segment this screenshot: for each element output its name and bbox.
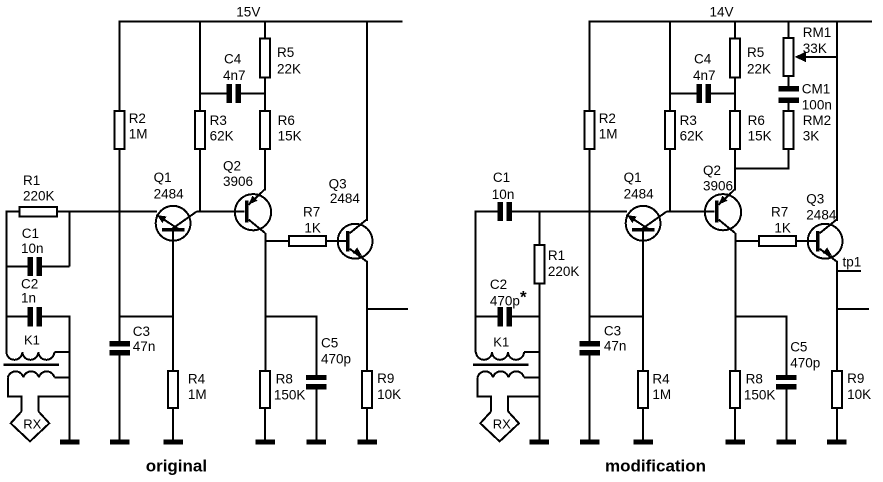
svg-text:C4: C4 [224,52,242,67]
svg-text:22K: 22K [277,61,301,76]
svg-text:C3: C3 [133,324,150,339]
svg-text:10K: 10K [377,387,401,402]
svg-text:47n: 47n [604,339,627,354]
wire K1 secondary right stub [54,376,69,378]
wire C4 left (original) [200,93,227,95]
svg-text:C5: C5 [321,335,338,350]
wire Q1 base down to R4 (modification) [642,232,644,371]
wire C1 right (original) [41,265,69,267]
resistor R6 (original) [260,111,270,149]
wire R2 to C3 (original) [119,149,121,341]
wire input left rail (modification) [475,211,477,353]
svg-text:3906: 3906 [703,178,733,193]
svg-text:22K: 22K [747,61,771,76]
svg-text:R8: R8 [746,371,763,386]
ground K1 (original) [60,440,80,445]
capacitor CM1 (modification) [778,86,798,92]
svg-text:R3: R3 [210,113,227,128]
wire RM2 to R6 node (modification) [735,149,789,169]
capacitor C4 (original) [227,84,233,103]
svg-text:1M: 1M [129,126,148,141]
transistor Q1 (original) [156,206,191,241]
wire R1 right drop (original) [69,211,71,267]
svg-text:R4: R4 [652,371,670,386]
svg-text:47n: 47n [133,339,156,354]
wire V+ to R3 (original) [199,21,201,112]
wire V+ to R2 (modification) [589,21,591,112]
svg-text:C2: C2 [490,277,507,292]
wire R5 to R6 (modification) [734,77,736,111]
svg-text:14V: 14V [710,5,734,20]
resistor R7 (modification) [759,236,796,246]
resistor R8 (modification) [730,371,740,408]
capacitor C2 (modification) [497,307,503,326]
svg-text:62K: 62K [210,128,234,143]
svg-text:C1: C1 [493,170,510,185]
resistor R1 (modification) [534,245,544,283]
svg-text:R5: R5 [747,45,764,60]
wire Q3 emitter down (original) [366,262,368,372]
capacitor C5 (modification) [776,375,796,380]
wire R5 to R6 (original) [264,77,266,111]
wire Q1 base down to R4 (original) [172,232,174,371]
svg-text:C1: C1 [22,226,39,241]
svg-text:R8: R8 [276,371,293,386]
svg-text:2484: 2484 [624,186,655,201]
svg-text:150K: 150K [274,388,306,403]
svg-text:470p: 470p [490,294,520,309]
resistor R6 (modification) [730,111,740,149]
power rail 14V (modification) [590,21,873,23]
svg-text:RM1: RM1 [803,25,832,40]
wire Q3 collector to V+ (original) [366,21,368,222]
svg-text:R7: R7 [303,204,320,219]
wire Q1 collector to Q2 base (modification) [667,211,715,213]
wire R9 to ground (modification) [836,408,838,441]
transistor Q3 (original) [338,224,373,259]
svg-text:470p: 470p [790,355,820,370]
wire R6 to Q2 emitter (original) [264,149,266,191]
svg-text:220K: 220K [23,189,55,204]
svg-text:10n: 10n [21,241,44,256]
wire output stub (modification) [837,308,869,310]
wire RM1 to CM1 (modification) [788,76,790,86]
svg-text:1M: 1M [652,387,671,402]
wire R6 to Q2 emitter (modification) [734,149,736,191]
resistor R7 (original) [289,236,326,246]
wire R9 to ground (original) [366,408,368,441]
svg-text:R2: R2 [129,111,146,126]
transformer K1 (modification) [476,352,524,360]
test point tp1 stub [837,270,861,272]
wire C2 right (modification) [511,316,539,318]
wire Q2 collector down (original) [264,233,266,371]
svg-text:15K: 15K [278,128,302,143]
resistor R4 (original) [168,371,178,408]
svg-text:2484: 2484 [330,191,361,206]
wire R7 to Q3 base (original) [326,240,346,242]
svg-text:220K: 220K [548,264,580,279]
wire antenna right connection [508,396,539,411]
wire K1 secondary left drop [478,377,492,411]
svg-text:*: * [520,288,527,307]
wire C2 left (modification) [476,316,499,318]
wire R1 top (modification) [538,211,540,246]
resistor R1 (original) [19,207,57,217]
svg-text:1M: 1M [599,126,618,141]
svg-text:R1: R1 [23,173,40,188]
capacitor C1 (modification) [497,202,503,221]
svg-text:1M: 1M [188,387,207,402]
svg-text:C4: C4 [694,52,712,67]
resistor R2 (modification) [585,111,595,149]
svg-text:15K: 15K [748,128,772,143]
resistor R3 (original) [195,111,205,149]
ground C5 (original) [307,440,327,445]
wire C5 top (modification) [785,315,787,374]
svg-text:CM1: CM1 [802,81,831,96]
wire K1 primary right stub [524,351,539,353]
svg-text:Q3: Q3 [806,192,824,207]
trimmer RM1 (modification) [784,38,794,76]
svg-text:15V: 15V [236,4,260,19]
wire K1 primary right stub [54,351,69,353]
wire C1 to Q1 base (modification) [511,211,627,213]
wire C4 right (original) [241,93,265,95]
wire C4 left (modification) [670,93,697,95]
wire Q2 collector to R7 (modification) [735,240,759,242]
svg-text:1n: 1n [21,290,36,305]
wire V+ to RM1 (modification) [788,21,790,38]
svg-text:Q1: Q1 [154,170,172,185]
ground R8 (original) [255,440,275,445]
wire V+ to R5 (original) [264,21,266,39]
svg-text:2484: 2484 [154,186,185,201]
resistor R5 (original) [260,39,270,78]
svg-text:R6: R6 [748,113,765,128]
wire C3 to ground (modification) [589,356,591,441]
wire R1 bottom (modification) [538,283,540,316]
wire R3 to base node (original) [199,149,201,213]
resistor R9 (modification) [832,371,842,408]
svg-text:R1: R1 [548,248,565,263]
wire R4 to ground (original) [172,408,174,441]
resistor R8 (original) [260,371,270,408]
wire C4 right (modification) [711,93,735,95]
wire V+ to R2 (original) [119,21,121,112]
wire Q1 node to C3 node (original) [120,316,174,318]
wire Q1 node to C3 node (modification) [590,316,644,318]
svg-text:R4: R4 [188,371,206,386]
svg-text:10K: 10K [847,387,871,402]
svg-text:470p: 470p [321,352,351,367]
wire Q2 collector down (modification) [734,233,736,371]
resistor R2 (original) [115,111,125,149]
K1 core [473,364,529,367]
capacitor C2 (original) [28,307,34,326]
wire Q2 collector to C5 (original) [265,315,316,317]
power rail 15V (original) [120,21,403,23]
svg-text:RM2: RM2 [803,113,832,128]
ground R9 (modification) [827,440,847,445]
svg-text:R7: R7 [771,204,788,219]
svg-text:Q2: Q2 [223,159,241,174]
wire CM1 to RM2 (modification) [788,103,790,111]
svg-text:3906: 3906 [223,174,253,189]
wire R7 to Q3 base (modification) [796,240,816,242]
wire C2 left (original) [6,316,28,318]
capacitor C4 (modification) [697,84,703,103]
wire C1 input left (modification) [476,211,499,213]
wire input left rail (original) [5,211,7,353]
wire R4 to ground (modification) [642,408,644,441]
wire R1 to Q1 base (original) [57,211,157,213]
svg-text:2484: 2484 [806,208,837,223]
svg-text:4n7: 4n7 [693,68,716,83]
capacitor C3 (original) [110,341,130,346]
wire C3 to ground (original) [119,356,121,441]
svg-text:tp1: tp1 [843,255,862,270]
ground R4 (original) [163,440,183,445]
svg-text:10n: 10n [492,187,515,202]
svg-text:1K: 1K [774,220,791,235]
ground K1 (modification) [530,440,550,445]
capacitor C1 (original) [28,257,34,276]
svg-text:62K: 62K [680,128,704,143]
resistor R3 (modification) [665,111,675,149]
wire Q3 emitter down (modification) [836,262,838,372]
resistor R4 (modification) [638,371,648,408]
svg-text:R9: R9 [847,371,864,386]
wire V+ to R3 (modification) [669,21,671,112]
svg-text:modification: modification [605,457,706,476]
svg-text:K1: K1 [493,335,509,350]
svg-text:R2: R2 [599,111,616,126]
wire K1 secondary left drop [8,377,22,411]
K1 core [3,364,59,367]
svg-text:3K: 3K [803,128,820,143]
antenna RX [11,411,50,441]
svg-text:1K: 1K [304,220,321,235]
wire C2 to ground (original) [69,316,71,441]
svg-text:C2: C2 [21,277,38,292]
wire R8 to ground (original) [264,408,266,441]
svg-text:100n: 100n [802,98,832,113]
wire Q1 collector to Q2 base (original) [197,211,245,213]
capacitor C3 (modification) [580,341,600,346]
resistor R5 (modification) [730,39,740,78]
wire C1 left (original) [6,265,28,267]
wire C2 right (original) [41,316,69,318]
K1 secondary winding [478,371,525,377]
wire R2 to C3 (modification) [589,149,591,341]
transistor Q2 (original) [235,194,271,230]
transistor Q3 (modification) [808,224,843,259]
wire K1 secondary right stub [524,376,539,378]
svg-text:R9: R9 [377,371,394,386]
svg-text:Q1: Q1 [624,170,642,185]
ground R9 (original) [357,440,377,445]
svg-text:4n7: 4n7 [223,68,246,83]
transformer K1 (original) [6,352,54,360]
transistor Q1 (modification) [626,206,661,241]
wire Q3 collector to V+ (modification) [836,21,838,222]
RM1 wiper arrow [801,56,837,58]
capacitor C5 (original) [306,375,326,380]
ground C5 (modification) [777,440,797,445]
svg-text:33K: 33K [803,41,827,56]
wire Q2 collector to R7 (original) [265,240,289,242]
wire output stub (original) [367,308,408,310]
wire R8 to ground (modification) [734,408,736,441]
svg-text:original: original [146,457,207,476]
svg-text:RX: RX [23,417,41,432]
wire R1 node to ground (modification) [538,316,540,441]
K1 secondary winding [8,371,55,377]
ground R8 (modification) [725,440,745,445]
svg-text:K1: K1 [24,333,40,348]
resistor R9 (original) [362,371,372,408]
svg-text:150K: 150K [744,388,776,403]
svg-text:Q2: Q2 [703,163,721,178]
wire C5 to ground (modification) [785,389,787,441]
wire antenna right connection [39,396,70,411]
wire R3 to base node (modification) [669,149,671,213]
svg-text:R6: R6 [278,113,295,128]
svg-text:R5: R5 [277,45,294,60]
svg-text:Q3: Q3 [329,177,347,192]
wire input to R1 (original) [6,211,19,213]
svg-text:C3: C3 [604,324,621,339]
antenna RX [480,411,519,441]
ground C3 (modification) [580,440,600,445]
ground R4 (modification) [633,440,653,445]
transistor Q2 (modification) [705,194,741,230]
svg-text:R3: R3 [680,113,697,128]
svg-text:RX: RX [493,417,511,432]
wire V+ to R5 (modification) [734,21,736,39]
wire Q2 collector to C5 (modification) [735,315,786,317]
wire C5 to ground (original) [315,389,317,441]
ground C3 (original) [110,440,130,445]
svg-text:C5: C5 [790,340,807,355]
wire C5 top (original) [315,315,317,374]
resistor RM2 (modification) [784,111,794,149]
